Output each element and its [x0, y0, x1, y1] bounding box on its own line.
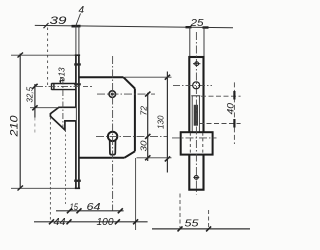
dim 40 ext bottom dashed — [199, 123, 241, 125]
leader 4 — [76, 14, 81, 27]
wire ext dotted 39 left — [47, 28, 49, 87]
centerline hub horizontal — [36, 85, 80, 87]
svg-text:55: 55 — [185, 218, 199, 230]
wire top dimension line — [35, 25, 233, 27]
wire ext case top right — [125, 76, 172, 78]
svg-text:100: 100 — [97, 217, 114, 228]
centerline screw hole horizontal — [97, 93, 155, 95]
node tick 25 right — [203, 26, 209, 28]
hidden plate edges through block — [189, 133, 191, 154]
tick 210 bottom — [18, 186, 24, 191]
phantom bolt tip dotted — [49, 117, 51, 222]
side centerline vertical — [195, 32, 197, 195]
tick row1 mid — [77, 208, 82, 213]
dim 40 line dashed — [233, 82, 235, 144]
keyhole slot — [110, 140, 116, 155]
dim row2 line — [34, 221, 148, 223]
ext 55 right dashed — [208, 210, 210, 229]
side bolt slot left line — [191, 96, 193, 132]
faceplate pin slot — [74, 83, 81, 85]
dim 55 line — [152, 228, 250, 230]
case top edge — [79, 76, 124, 78]
case bottom-right chamfer — [124, 151, 135, 158]
keyhole circle — [108, 132, 117, 141]
phantom bolt line inner dotted — [65, 130, 67, 205]
svg-text:ø13: ø13 — [58, 67, 67, 82]
tick row2 b — [67, 219, 72, 224]
tick 55 left — [178, 226, 183, 231]
case right edge — [134, 89, 136, 152]
centerline keyhole vertical — [112, 56, 114, 211]
side centerline pin horiz — [173, 85, 212, 87]
side hook block — [181, 132, 213, 154]
tick 130 bottom — [165, 156, 170, 161]
wire ext faceplate top to 210 dim — [11, 54, 75, 56]
tick 32.5 top — [32, 84, 37, 89]
tick 210 top — [18, 53, 24, 58]
wire ext faceplate bottom to 210 dim — [11, 187, 75, 189]
centerline hub vertical — [62, 79, 64, 129]
wire ext plate up left — [189, 27, 191, 57]
side bolt dark bar — [194, 105, 198, 126]
side bolt slot top cap — [191, 95, 200, 97]
faceplate back edge — [78, 55, 80, 188]
dim 32.5 line — [34, 84, 36, 118]
svg-text:30: 30 — [139, 140, 149, 151]
hub pin cylinder — [52, 83, 76, 90]
faceplate top cap — [75, 54, 80, 56]
tick 40 top — [233, 91, 235, 100]
faceplate front edge — [75, 55, 77, 188]
case bottom edge — [79, 157, 124, 159]
side bolt slot right line — [198, 96, 200, 132]
faceplate screw slot bottom — [74, 180, 81, 182]
ext 55 left dashed — [179, 194, 181, 229]
side screw hole bottom — [194, 176, 198, 180]
svg-text:210: 210 — [9, 114, 21, 137]
svg-text:130: 130 — [156, 115, 166, 129]
node tick 39 left — [44, 23, 49, 28]
side pin hole — [193, 82, 200, 89]
svg-text:15: 15 — [70, 202, 79, 212]
svg-text:32,5: 32,5 — [26, 86, 35, 102]
tick row2 c — [115, 219, 120, 224]
svg-text:39: 39 — [50, 15, 67, 27]
hook bolt — [50, 107, 76, 130]
svg-text:72: 72 — [139, 106, 149, 116]
svg-text:64: 64 — [87, 202, 102, 213]
faceplate screw slot top — [74, 63, 81, 65]
node tick 25 left — [186, 26, 192, 28]
tick row1 right — [118, 208, 123, 213]
svg-text:40: 40 — [226, 102, 237, 114]
side screw hole top — [195, 62, 199, 66]
node tick faceplate top dim — [72, 25, 81, 28]
wire ext case bottom right — [137, 157, 172, 159]
dim 210 line — [19, 54, 21, 189]
side centerline keyhole horiz over block — [172, 137, 217, 139]
tick row2 d — [133, 219, 138, 224]
leader dia13 — [59, 80, 61, 83]
case top-right chamfer — [124, 77, 135, 88]
centerline keyhole horizontal — [96, 135, 168, 137]
dim 130 line — [166, 72, 168, 173]
tick 72 top — [145, 92, 150, 97]
tick 30 bottom — [145, 155, 150, 160]
tick 72-30 mid — [145, 134, 150, 139]
wire ext case right edge down — [135, 158, 137, 230]
tick 55 right — [206, 226, 211, 231]
wire faceplate ext up — [75, 26, 77, 55]
dim 40 ext top dashed — [201, 95, 241, 97]
wire ext plate up right — [203, 27, 205, 57]
svg-text:4: 4 — [79, 5, 85, 16]
tick 130 top — [165, 75, 170, 80]
case screw hole — [109, 91, 116, 98]
svg-text:44: 44 — [54, 217, 66, 228]
side plate outline — [189, 57, 203, 190]
tick row1 left — [67, 208, 72, 213]
dim row1 line — [56, 210, 124, 212]
tick 32.5 bottom — [32, 105, 37, 110]
tick 40 bottom — [233, 119, 235, 128]
svg-text:25: 25 — [189, 18, 204, 29]
tick row2 a — [49, 219, 54, 224]
wire bolt-top ext left — [30, 107, 59, 109]
dim 72-30 line — [147, 93, 149, 161]
faceplate bottom cap — [75, 187, 80, 189]
